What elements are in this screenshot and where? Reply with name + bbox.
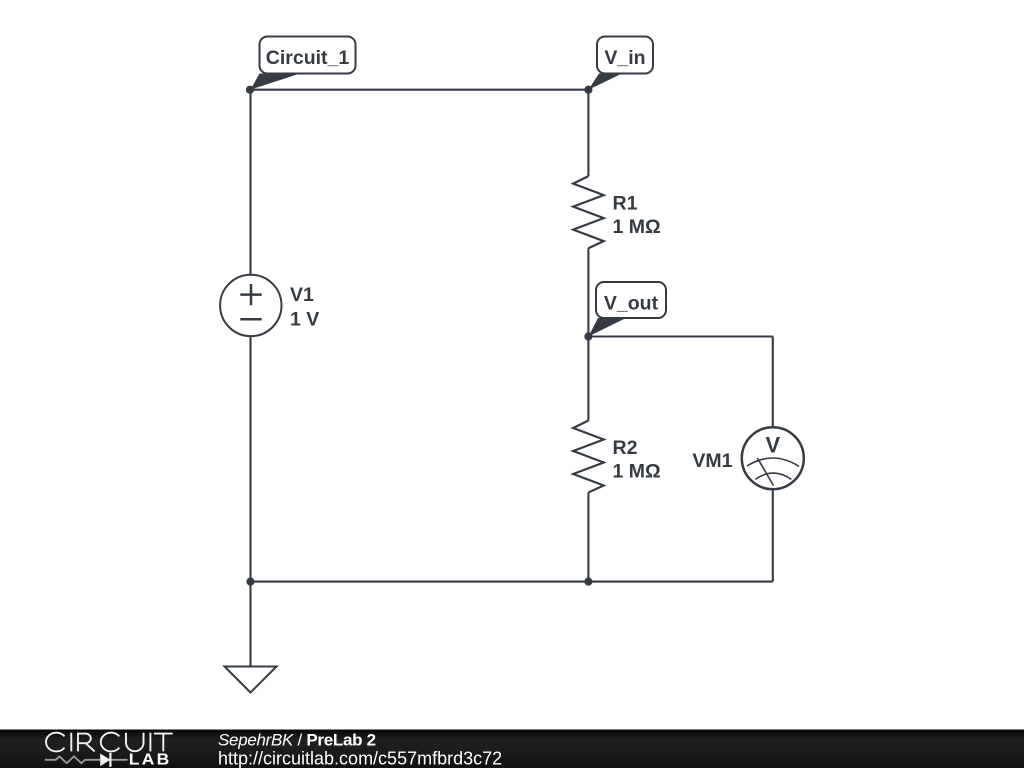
svg-text:V: V	[765, 432, 780, 457]
svg-text:V_out: V_out	[604, 292, 659, 314]
svg-text:LAB: LAB	[129, 752, 172, 768]
junction dot bottom left	[246, 578, 254, 586]
resistor R1	[573, 176, 660, 248]
svg-text:R1: R1	[613, 193, 638, 215]
svg-text:1 MΩ: 1 MΩ	[613, 216, 661, 238]
voltage source V1	[220, 275, 319, 336]
wire voltmeter to bottom rail	[772, 489, 774, 581]
wire top rail	[251, 89, 589, 91]
voltmeter VM1	[692, 427, 803, 489]
CircuitLab logo CIRCUIT letters	[46, 733, 173, 752]
wire top rail to V1	[249, 90, 251, 275]
wire V_out to voltmeter	[772, 337, 774, 428]
wire V_in to R1	[587, 90, 589, 176]
wire V_out rail	[588, 335, 772, 337]
CircuitLab logo doodle (resistor + diode)	[45, 756, 128, 763]
node label V_out	[588, 282, 666, 337]
resistor R2	[573, 421, 660, 493]
wire V1 to bottom rail	[249, 336, 251, 581]
footer bar	[0, 730, 1024, 768]
svg-text:R2: R2	[613, 437, 638, 459]
svg-text:V1: V1	[290, 284, 314, 306]
svg-text:1 V: 1 V	[290, 309, 319, 331]
wire to ground	[249, 582, 251, 667]
svg-text:1 MΩ: 1 MΩ	[613, 461, 661, 483]
svg-text:VM1: VM1	[692, 450, 732, 472]
junction dot V_in	[584, 86, 592, 94]
wire R2 to bottom rail	[587, 493, 589, 582]
svg-text:V_in: V_in	[604, 47, 645, 69]
ground	[225, 667, 277, 693]
svg-text:http://circuitlab.com/c557mfbr: http://circuitlab.com/c557mfbrd3c72	[218, 748, 502, 768]
junction dot V_out	[584, 332, 592, 340]
wire V_out to R2	[587, 337, 589, 421]
junction dot Circuit_1	[246, 86, 254, 94]
wire R1 to V_out	[587, 248, 589, 336]
node label Circuit_1	[251, 37, 356, 90]
svg-text:SepehrBK / PreLab 2: SepehrBK / PreLab 2	[218, 731, 376, 750]
node label V_in	[588, 37, 653, 90]
wire bottom rail	[251, 581, 773, 583]
svg-text:Circuit_1: Circuit_1	[266, 47, 350, 69]
junction dot bottom mid	[584, 578, 592, 586]
